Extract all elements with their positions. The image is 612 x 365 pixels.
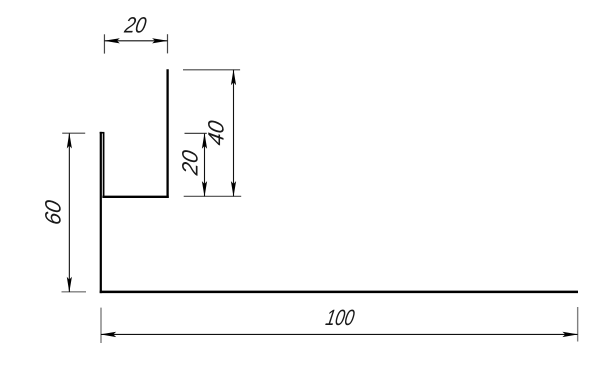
extension line dim40 top xyxy=(183,69,240,71)
extension line dim20top left xyxy=(103,34,105,53)
arrowhead 60 bottom xyxy=(67,277,72,293)
dimension line 60 xyxy=(68,133,70,292)
extension line dim100 left xyxy=(100,308,102,343)
extension line dim40/dim20 bottom shared xyxy=(184,195,242,197)
dimension line 20 top xyxy=(104,40,167,42)
extension line dim20top right xyxy=(167,34,169,53)
profile right vertical wall xyxy=(166,69,168,198)
dimension line 40 xyxy=(233,70,235,197)
arrowhead 40 bottom xyxy=(231,181,236,197)
svg-text:20: 20 xyxy=(122,13,149,38)
label 60 xyxy=(40,198,65,227)
arrowhead 100 left xyxy=(100,332,116,337)
label 100 xyxy=(324,306,356,331)
arrowhead 20inner bottom xyxy=(202,181,207,197)
svg-text:20: 20 xyxy=(177,148,202,178)
dimension line 20 inner xyxy=(204,133,206,196)
arrowhead 40 top xyxy=(231,69,236,85)
svg-text:60: 60 xyxy=(40,198,65,227)
arrowhead 20inner top xyxy=(202,133,207,149)
extension line dim60 top xyxy=(62,132,85,134)
profile hem inner vertical xyxy=(103,133,105,197)
extension line dim100 right xyxy=(577,307,579,342)
arrowhead 100 right xyxy=(562,332,578,337)
svg-text:100: 100 xyxy=(324,306,356,331)
extension line dim20inner top xyxy=(185,132,207,134)
label 20 top xyxy=(122,13,149,38)
arrowhead 20top right xyxy=(152,38,168,43)
label 40 xyxy=(203,118,228,147)
dimension line 100 xyxy=(101,333,578,335)
profile hem top cap xyxy=(100,132,105,134)
arrowhead 20top left xyxy=(104,38,120,43)
extension line dim60 bottom xyxy=(62,291,87,293)
profile left vertical leg xyxy=(100,132,102,293)
label 20 inner xyxy=(177,148,202,178)
profile bottom flange (100 wide) xyxy=(100,291,578,294)
profile channel bottom xyxy=(102,196,168,198)
arrowhead 60 top xyxy=(67,133,72,149)
svg-text:40: 40 xyxy=(203,118,228,147)
